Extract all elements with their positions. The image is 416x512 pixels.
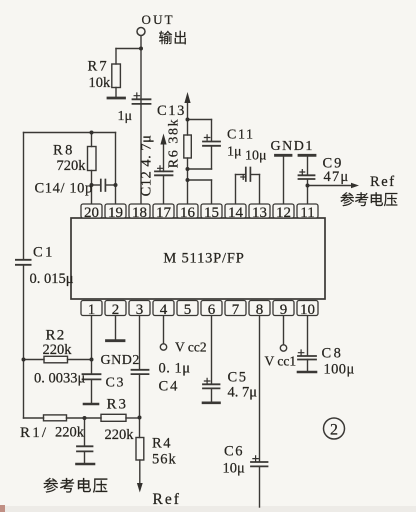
svg-text:11: 11 xyxy=(300,205,314,221)
svg-text:C1: C1 xyxy=(33,245,55,261)
svg-text:Ref: Ref xyxy=(370,174,396,190)
svg-text:C11: C11 xyxy=(227,128,255,143)
svg-text:参考电压: 参考电压 xyxy=(340,192,398,209)
svg-text:18: 18 xyxy=(132,205,147,221)
svg-text:C13: C13 xyxy=(157,103,186,119)
svg-text:16: 16 xyxy=(180,205,196,221)
svg-text:M 5113P/FP: M 5113P/FP xyxy=(163,251,244,267)
svg-text:1μ: 1μ xyxy=(118,109,133,124)
svg-text:R4: R4 xyxy=(152,436,172,452)
svg-text:V cc1: V cc1 xyxy=(265,354,297,369)
svg-text:C12 4. 7μ: C12 4. 7μ xyxy=(139,135,155,197)
svg-text:47μ: 47μ xyxy=(324,169,350,185)
svg-text:19: 19 xyxy=(108,205,123,221)
svg-text:GND1: GND1 xyxy=(271,139,314,154)
svg-text:10μ: 10μ xyxy=(245,149,267,164)
svg-text:C14/ 10p: C14/ 10p xyxy=(35,181,93,197)
svg-text:0. 1μ: 0. 1μ xyxy=(159,361,191,377)
svg-text:GND2: GND2 xyxy=(101,353,140,368)
svg-text:OUT: OUT xyxy=(142,12,175,27)
svg-text:C6: C6 xyxy=(224,444,244,460)
svg-text:0. 015μ: 0. 015μ xyxy=(30,271,74,287)
svg-text:6: 6 xyxy=(208,302,216,318)
svg-text:14: 14 xyxy=(228,205,244,221)
svg-text:参考电压: 参考电压 xyxy=(43,477,109,495)
svg-text:C3: C3 xyxy=(106,376,126,391)
svg-text:0. 0033μ: 0. 0033μ xyxy=(34,371,86,387)
svg-text:3: 3 xyxy=(136,302,144,318)
svg-text:5: 5 xyxy=(184,302,192,318)
svg-text:10: 10 xyxy=(300,302,315,318)
svg-text:13: 13 xyxy=(252,205,267,221)
svg-text:4. 7μ: 4. 7μ xyxy=(228,385,258,401)
svg-text:2: 2 xyxy=(330,422,338,439)
svg-text:R6 38k: R6 38k xyxy=(167,118,182,168)
svg-text:56k: 56k xyxy=(152,452,177,468)
svg-text:Ref: Ref xyxy=(153,491,181,508)
svg-text:220k: 220k xyxy=(105,427,135,443)
svg-text:1: 1 xyxy=(88,302,96,318)
svg-text:1μ: 1μ xyxy=(227,145,242,160)
svg-text:R8: R8 xyxy=(53,143,75,159)
svg-text:4: 4 xyxy=(160,302,168,318)
svg-text:V cc2: V cc2 xyxy=(175,340,207,355)
svg-text:720k: 720k xyxy=(57,158,87,174)
svg-text:10k: 10k xyxy=(89,75,112,91)
svg-text:220k: 220k xyxy=(55,425,85,441)
svg-text:10μ: 10μ xyxy=(223,461,246,477)
svg-text:2: 2 xyxy=(112,302,120,318)
svg-text:C4: C4 xyxy=(159,379,180,395)
svg-text:C5: C5 xyxy=(228,370,248,386)
svg-text:C8: C8 xyxy=(322,346,344,362)
svg-text:输出: 输出 xyxy=(159,31,189,47)
svg-text:12: 12 xyxy=(276,205,291,221)
svg-text:9: 9 xyxy=(280,302,288,318)
svg-text:R3: R3 xyxy=(107,397,129,413)
svg-text:20: 20 xyxy=(84,205,99,221)
svg-text:220k: 220k xyxy=(43,342,73,358)
svg-text:15: 15 xyxy=(204,205,219,221)
svg-text:R1/: R1/ xyxy=(20,425,48,441)
svg-text:R7: R7 xyxy=(88,59,109,75)
svg-text:7: 7 xyxy=(232,302,240,318)
svg-text:17: 17 xyxy=(156,205,172,221)
svg-text:8: 8 xyxy=(256,302,264,318)
svg-text:100μ: 100μ xyxy=(324,362,355,378)
